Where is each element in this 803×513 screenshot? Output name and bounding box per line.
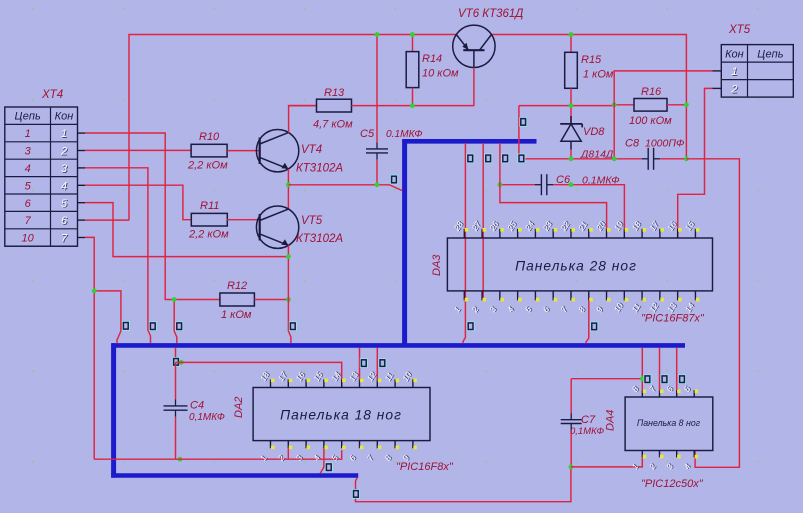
svg-text:"PIC16F8x": "PIC16F8x" [396, 461, 454, 473]
socket DA3 pin pads [465, 228, 700, 301]
bus segment left vertical [111, 343, 116, 477]
wire XT5 pin2 to DA3 pin16 [678, 88, 713, 238]
transistor VT5 [256, 206, 298, 248]
wire DA4 pin6 to bus [676, 348, 678, 391]
wire bus to DA3 pin1 pin28 column [463, 143, 465, 344]
svg-text:Кон: Кон [725, 48, 744, 60]
svg-text:XT4: XT4 [41, 89, 63, 101]
wire XT4 pin7 down [85, 237, 94, 459]
svg-text:R13: R13 [324, 87, 345, 99]
junction R16 right [684, 102, 689, 107]
junction C5 bottom [375, 182, 380, 187]
label DA4 chip [641, 478, 704, 490]
bus segment top horizontal [403, 139, 537, 144]
wire C7 top to DA4 pin8 [571, 378, 642, 380]
via VT6 base net below bus [518, 154, 526, 164]
svg-text:КТ3102А: КТ3102А [296, 233, 343, 245]
socket DA3 body [447, 229, 712, 301]
bus segment main horizontal [111, 343, 685, 348]
wire R13 to VT6 base [352, 105, 475, 107]
via VT5 emitter branch [289, 321, 297, 331]
label C8 [625, 138, 640, 150]
via R12 branch [175, 321, 183, 331]
label R15 [581, 54, 602, 66]
wire bottom ground loop [356, 467, 571, 502]
wire R11 to VT5 base [227, 219, 260, 221]
label R11 [200, 200, 219, 212]
resistor R14 [406, 52, 419, 88]
wire VT6 base lead [473, 68, 475, 106]
via DA4 pin7 [661, 374, 669, 384]
svg-text:"PIC12c50x": "PIC12c50x" [641, 478, 704, 490]
svg-text:10: 10 [22, 233, 35, 245]
wire R15 bottom lead [570, 88, 572, 123]
svg-text:2: 2 [730, 84, 737, 96]
svg-text:C5: C5 [360, 128, 375, 140]
svg-text:Панелька 8 ног: Панелька 8 ног [637, 418, 701, 428]
wire XT4 pin4 to R11 [85, 185, 191, 220]
wire R16 right lead [667, 104, 686, 106]
svg-text:1 кОм: 1 кОм [221, 309, 252, 321]
capacitor C4 [164, 399, 188, 416]
svg-text:R10: R10 [199, 131, 220, 143]
svg-text:4: 4 [61, 180, 67, 192]
wire C5 bottom to bus [377, 185, 402, 191]
svg-text:XT5: XT5 [728, 24, 751, 36]
label R16 [641, 86, 662, 98]
wire DA2 pin2 stub down [287, 448, 289, 459]
wire C4 bottom to DA2 pin5 [94, 450, 342, 459]
svg-text:4,7 кОм: 4,7 кОм [313, 119, 353, 131]
svg-text:6: 6 [61, 215, 68, 227]
socket DA4 body [625, 390, 713, 457]
via C6 wire [501, 154, 509, 164]
svg-text:7: 7 [61, 233, 68, 245]
label DA3 chip [641, 313, 705, 325]
svg-text:0.1МКФ: 0.1МКФ [386, 129, 423, 140]
wire +rail left segment [129, 35, 456, 221]
XT5 pin stubs [713, 71, 722, 89]
svg-text:VT5: VT5 [301, 215, 323, 227]
svg-text:DA4: DA4 [605, 410, 617, 431]
wire DA2 pin4 to bus [320, 448, 324, 473]
label VD8 [583, 126, 605, 138]
svg-text:C4: C4 [190, 400, 204, 412]
wire DA2 pin12 to bus [376, 348, 378, 380]
resistor R13 [317, 99, 352, 112]
via C5-bus [390, 175, 398, 185]
label DA3 [431, 254, 443, 276]
XT4 pin stubs [78, 133, 86, 237]
svg-text:КТ3102А: КТ3102А [296, 163, 343, 175]
wire bus to C6 left [499, 143, 501, 185]
wire C6 right to DA3 pin19 [553, 185, 624, 229]
svg-text:Панелька 28 ног: Панелька 28 ног [515, 259, 637, 274]
socket DA2 pin numbers [259, 370, 415, 464]
junction C8 right [684, 156, 689, 161]
label DA2 socket text [280, 408, 402, 423]
wire C8 left lead [524, 158, 642, 160]
label VD8 type [580, 149, 614, 161]
svg-text:2,2 кОм: 2,2 кОм [188, 229, 229, 241]
socket DA2 body [253, 379, 430, 448]
label C4 value [189, 412, 225, 423]
wire XT4 pin5 to VT5 emitter [85, 203, 288, 257]
wire R12 node to bus [174, 300, 177, 344]
label R15 value [583, 69, 614, 81]
svg-text:VD8: VD8 [583, 126, 605, 138]
svg-text:VT4: VT4 [301, 144, 322, 156]
capacitor C7 [561, 413, 582, 430]
via DA2 pin13 [360, 358, 368, 368]
wire C7 bottom to DA4 pin1 [571, 457, 642, 467]
junction VT4-VT5 node [286, 182, 291, 187]
label DA4 [605, 410, 617, 431]
label VT6 [458, 8, 523, 20]
wire XT4 pin1 to R12 node [85, 133, 174, 300]
resistor R16 [634, 99, 667, 112]
wire C7 vertical [570, 379, 572, 467]
svg-text:R11: R11 [200, 200, 219, 212]
label VT5 [301, 215, 323, 227]
label C8 value [645, 138, 684, 150]
wire VD8 bottom lead [570, 150, 572, 159]
label R14 value [422, 68, 459, 80]
junction C4 top [179, 360, 184, 365]
label C7 [581, 414, 596, 426]
svg-text:VT6 КТ361Д: VT6 КТ361Д [458, 8, 523, 20]
transistor VT6 [453, 25, 495, 67]
junction C6 left [498, 182, 503, 187]
wire R15 top lead [570, 35, 572, 53]
svg-text:3: 3 [25, 146, 32, 158]
label R12 value [221, 309, 252, 321]
junction C4 bottom [178, 457, 183, 462]
wire DA3 pin8 to bus [586, 300, 589, 343]
wire C5 vertical [376, 35, 378, 185]
svg-text:C7: C7 [581, 414, 596, 426]
junction C5 top [375, 32, 380, 37]
label XT4 [41, 89, 63, 101]
label C5 value [386, 129, 423, 140]
label R16 value [629, 115, 672, 127]
wire C6 left lead [500, 184, 535, 186]
label C4 [190, 400, 204, 412]
junction pin7 node [92, 289, 97, 294]
wire XT4 pin3 to bus [85, 168, 151, 343]
via pin7 branch [122, 321, 130, 331]
via DA2 pin12 [379, 358, 387, 368]
wire VT4 emitter to VT5 collector [287, 169, 289, 209]
svg-text:4: 4 [25, 163, 31, 175]
junction VT5 emitter [286, 254, 291, 259]
svg-text:Кон: Кон [55, 111, 74, 123]
via DA4 pin8 [644, 374, 652, 384]
wire XT4 pin6 to rail [85, 219, 129, 221]
label R14 [422, 53, 442, 65]
wire +rail right segment [492, 35, 687, 159]
label R10 [199, 131, 220, 143]
svg-text:R12: R12 [227, 280, 247, 292]
svg-text:R15: R15 [581, 54, 602, 66]
wire R16 left lead [614, 104, 634, 106]
junction R12 left [172, 297, 177, 302]
svg-text:2,2 кОм: 2,2 кОм [187, 159, 228, 171]
junction C8 left net [612, 156, 617, 161]
svg-text:7: 7 [25, 215, 32, 227]
wire C4 top to DA2 pin14 [176, 362, 342, 387]
svg-text:3: 3 [61, 163, 68, 175]
wire VT5 emitter to bus [288, 245, 291, 343]
junction R15 bottom [569, 103, 574, 108]
wire R12 right lead [254, 299, 288, 301]
junction R14 bottom [410, 103, 415, 108]
svg-text:Цепь: Цепь [757, 48, 783, 60]
junction C6 right net [569, 182, 574, 187]
capacitor C5 [366, 142, 388, 159]
resistor R15 [565, 52, 578, 88]
resistor R10 [191, 144, 227, 157]
svg-text:Цепь: Цепь [15, 111, 41, 123]
wire DA4 pin7 to bus [659, 348, 661, 391]
junction R14 top [410, 32, 415, 37]
wire C6 left loop to DA3 pin20 [500, 185, 607, 229]
svg-text:1000ПФ: 1000ПФ [645, 138, 684, 150]
wire R13 left lead [289, 105, 317, 107]
connector XT5 [721, 45, 793, 98]
svg-text:Панелька 18 ног: Панелька 18 ног [280, 408, 402, 423]
wire XT5 pin1 line [614, 71, 712, 159]
wire C8 net to DA4 pin4 [686, 159, 739, 468]
label R12 [227, 280, 247, 292]
svg-text:0,1МКФ: 0,1МКФ [570, 426, 605, 437]
wire C4 vertical [175, 362, 177, 459]
via DA3 pin28 wire top [466, 154, 474, 164]
label VT4 [301, 144, 322, 156]
svg-text:1: 1 [61, 128, 67, 140]
via DA3 pin1 wire bottom [467, 321, 475, 331]
label C5 [360, 128, 375, 140]
svg-text:1: 1 [731, 66, 737, 78]
junction R16 left [612, 102, 617, 107]
wire XT4 pin7 branch to bus [94, 291, 121, 344]
svg-text:1 кОм: 1 кОм [583, 69, 614, 81]
label R13 [324, 87, 345, 99]
wire bus to DA3 pin2 pin27 column [482, 143, 484, 301]
via VT6 base net above bus [519, 117, 527, 127]
svg-text:C8: C8 [625, 138, 640, 150]
svg-text:R16: R16 [641, 86, 662, 98]
label XT5 [728, 24, 751, 36]
via DA4 pin6 [678, 374, 686, 384]
transistor VT4 [256, 130, 298, 172]
wire C5 bottom to VT4 node [288, 184, 377, 186]
bus segment center vertical [402, 139, 407, 345]
socket DA4 pin numbers [630, 384, 693, 472]
resistor R11 [191, 213, 227, 226]
svg-text:100 кОм: 100 кОм [629, 115, 672, 127]
diode VD8 [560, 116, 582, 150]
wire R14 top lead [412, 35, 414, 52]
via DA3 pin8 wire [590, 322, 598, 332]
wire VT4 collector [289, 106, 317, 133]
resistor R12 [220, 293, 255, 306]
via pin3 branch [149, 321, 157, 331]
socket DA3 pin numbers [452, 219, 698, 315]
junction VD8 bottom [569, 156, 574, 161]
via bottom loop [352, 489, 360, 499]
socket DA4 pin pads [643, 389, 698, 458]
connector XT4 [5, 107, 78, 246]
wire R10 to VT4 base [227, 150, 260, 152]
label DA4 socket text [637, 418, 701, 428]
svg-text:2: 2 [60, 146, 67, 158]
label DA2 [233, 397, 245, 418]
wire DA4 pin8 to bus [641, 348, 643, 391]
svg-text:"PIC16F87x": "PIC16F87x" [641, 313, 705, 325]
svg-text:10 кОм: 10 кОм [422, 68, 459, 80]
svg-text:DA2: DA2 [233, 397, 245, 418]
label C6 value [582, 175, 620, 187]
label C7 value [570, 426, 605, 437]
label R10 value [187, 159, 228, 171]
bus segment bottom horizontal [111, 473, 358, 478]
capacitor C6 [535, 174, 553, 195]
junction DA4 pin8 C7 [640, 376, 645, 381]
wire zener net through bus [518, 106, 520, 159]
svg-text:0,1МКФ: 0,1МКФ [189, 412, 225, 423]
junction R15 top [569, 32, 574, 37]
junction C7 bottom [569, 465, 574, 470]
label R11 value [188, 229, 229, 241]
wire XT4 pin2 to R10 [85, 149, 191, 151]
label VT4 type [296, 163, 343, 175]
svg-text:DA3: DA3 [431, 254, 443, 276]
via DA2 pin4 [325, 462, 333, 472]
wire R15 bottom net horizontal [519, 105, 614, 107]
wire C4 bus stub [175, 348, 177, 363]
socket DA2 pin pads [271, 379, 417, 450]
svg-text:5: 5 [25, 180, 32, 192]
svg-text:R14: R14 [422, 53, 442, 65]
label R13 value [313, 119, 353, 131]
svg-text:5: 5 [61, 198, 68, 210]
svg-text:6: 6 [25, 198, 32, 210]
label VT5 type [296, 233, 343, 245]
label DA2 chip [396, 461, 454, 473]
label C6 [556, 174, 571, 186]
wire R14 bottom lead [412, 88, 414, 106]
junction R12 right [286, 297, 291, 302]
via C4 top [172, 357, 180, 367]
via DA3 pin27 wire [484, 154, 492, 164]
label DA3 socket text [515, 259, 637, 274]
wire C8 right lead [660, 158, 686, 160]
svg-text:1: 1 [25, 128, 31, 140]
wire DA2 pin13 to bus [359, 348, 361, 380]
capacitor C8 [642, 148, 660, 170]
wire R12 left lead [174, 299, 220, 301]
